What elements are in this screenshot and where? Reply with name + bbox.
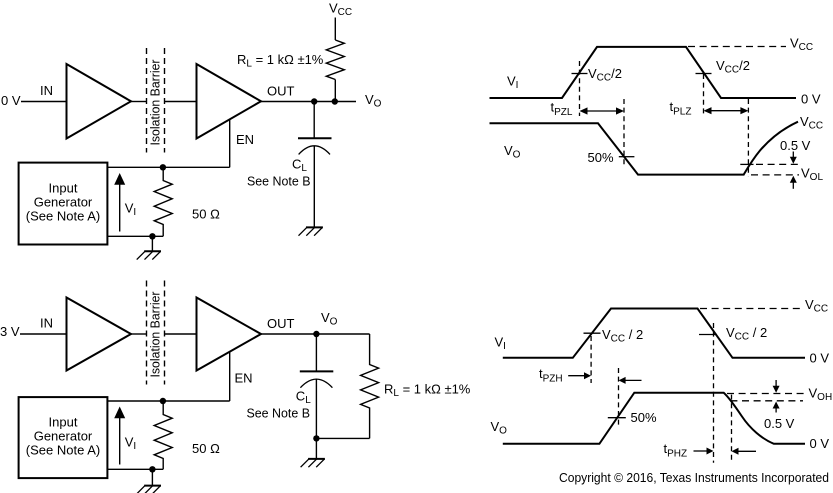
svg-text:Input: Input bbox=[49, 181, 78, 196]
resistor RL bbox=[326, 40, 344, 80]
wire CL to ground node bbox=[315, 379, 317, 438]
wire EN pin bbox=[229, 119, 231, 167]
resistor RL bottom bbox=[361, 334, 379, 438]
svg-text:Generator: Generator bbox=[34, 195, 93, 210]
tPHZ right arrow bbox=[732, 448, 757, 455]
junction dot RL node bbox=[332, 98, 338, 104]
ground generator bbox=[137, 486, 161, 493]
junction dot VI node bbox=[160, 164, 166, 170]
wire output node bbox=[261, 101, 356, 103]
wire to ground bbox=[315, 438, 317, 459]
waveform VO trace bbox=[503, 393, 805, 444]
svg-text:50%: 50% bbox=[631, 410, 657, 425]
svg-text:0 V: 0 V bbox=[801, 92, 821, 107]
wire generator to EN bbox=[107, 400, 229, 402]
tick rise midpoint bbox=[584, 332, 601, 334]
svg-text:See Note B: See Note B bbox=[247, 406, 311, 421]
junction dot ground node bbox=[149, 233, 155, 239]
wire RL to CL node bbox=[316, 437, 369, 439]
dashed vertical VO 50% bbox=[623, 99, 625, 165]
svg-text:Input: Input bbox=[49, 415, 78, 430]
dashed VOH level line bbox=[727, 393, 806, 395]
svg-text:Copyright © 2016, Texas Instru: Copyright © 2016, Texas Instruments Inco… bbox=[559, 470, 829, 485]
wire input to buffer 1 bbox=[20, 333, 67, 335]
wire to ground bbox=[151, 236, 153, 251]
tPLZ arrow bbox=[704, 107, 749, 114]
tPZH arrow bbox=[568, 372, 591, 379]
tick fall midpoint bbox=[699, 334, 717, 336]
junction dot output node bbox=[313, 331, 319, 337]
capacitor CL curved plate bbox=[300, 379, 332, 388]
buffer U4 bbox=[197, 298, 262, 371]
isolation barrier dashed line left bbox=[146, 48, 148, 153]
0.5V up arrow bbox=[773, 402, 780, 413]
junction dot ground node bbox=[313, 435, 319, 441]
svg-text:IN: IN bbox=[40, 83, 53, 98]
waveform VI trace bbox=[503, 309, 805, 358]
wire VCC to RL bbox=[334, 18, 336, 41]
wire barrier to buffer 2 bbox=[165, 101, 197, 103]
dashed vertical rise midpoint bbox=[590, 336, 592, 383]
wire generator bottom bbox=[107, 468, 163, 470]
resistor 50 ohm bbox=[154, 401, 172, 469]
wire generator bottom bbox=[107, 235, 163, 237]
capacitor CL top plate bbox=[298, 137, 332, 139]
dashed vertical tPLZ end bbox=[747, 99, 749, 177]
buffer U3 bbox=[67, 298, 132, 371]
capacitor CL top plate bbox=[300, 370, 334, 372]
resistor 50 ohm bbox=[154, 167, 172, 236]
0.5V down arrow bbox=[790, 152, 797, 164]
waveform VI trace bbox=[490, 47, 797, 98]
VOL up arrow bbox=[790, 176, 797, 189]
svg-text:0 V: 0 V bbox=[810, 351, 830, 366]
svg-text:0 V: 0 V bbox=[810, 436, 830, 451]
wire CL to ground bbox=[313, 146, 315, 227]
isolation barrier dashed line left bbox=[146, 281, 148, 385]
svg-text:0 V: 0 V bbox=[1, 93, 21, 108]
wire input to buffer 1 bbox=[21, 101, 67, 103]
VI arrow bbox=[114, 407, 125, 465]
dashed vertical tPHZ end bbox=[731, 395, 733, 463]
dashed vertical VO 50% bbox=[618, 368, 620, 426]
tick 50% bbox=[619, 156, 635, 158]
svg-text:OUT: OUT bbox=[267, 316, 295, 331]
tick fall midpoint bbox=[696, 73, 712, 75]
svg-text:See Note B: See Note B bbox=[247, 174, 311, 189]
wire RL to node bbox=[334, 80, 336, 102]
tPZH right arrow bbox=[619, 377, 642, 384]
dashed VOL lower line bbox=[751, 174, 799, 176]
wire node to CL bbox=[313, 102, 315, 139]
tPZL arrow bbox=[580, 107, 625, 114]
dashed 0.5V lower line bbox=[730, 400, 803, 402]
dashed VCC level line bbox=[700, 308, 801, 310]
svg-text:(See Note A): (See Note A) bbox=[26, 443, 100, 458]
svg-text:Generator: Generator bbox=[34, 429, 93, 444]
isolation barrier dashed line right bbox=[164, 48, 166, 153]
wire node to CL bbox=[315, 334, 317, 371]
VI arrow bbox=[114, 173, 125, 232]
tick 50% bbox=[608, 417, 626, 419]
wire generator to EN bbox=[107, 166, 229, 168]
svg-text:50 Ω: 50 Ω bbox=[192, 441, 220, 456]
tick rise midpoint bbox=[572, 73, 588, 75]
svg-text:(See Note A): (See Note A) bbox=[26, 209, 100, 224]
tick VOL crossing bbox=[740, 163, 753, 165]
svg-text:EN: EN bbox=[236, 132, 254, 147]
svg-text:Isolation Barrier: Isolation Barrier bbox=[148, 291, 163, 378]
dashed vertical fall midpoint bbox=[713, 323, 715, 463]
buffer U2 bbox=[197, 64, 262, 139]
waveform VO trace bbox=[490, 122, 799, 175]
ground CL bbox=[299, 227, 323, 235]
wire to ground bbox=[151, 469, 153, 485]
tPHZ arrow bbox=[694, 448, 714, 455]
svg-text:0.5 V: 0.5 V bbox=[764, 416, 795, 431]
svg-text:IN: IN bbox=[40, 316, 53, 331]
wire buffer to barrier bbox=[131, 333, 147, 335]
dashed vertical fall midpoint bbox=[703, 74, 705, 116]
0.5V down arrow bbox=[773, 380, 780, 393]
svg-text:50 Ω: 50 Ω bbox=[192, 207, 220, 222]
input generator box bbox=[19, 163, 108, 245]
buffer U1 bbox=[67, 64, 132, 139]
ground generator bbox=[137, 251, 161, 259]
svg-text:EN: EN bbox=[235, 371, 253, 386]
svg-text:OUT: OUT bbox=[267, 84, 295, 99]
dashed VOL upper line bbox=[756, 163, 798, 165]
svg-text:3 V: 3 V bbox=[0, 324, 20, 339]
capacitor CL curved plate bbox=[299, 146, 330, 155]
isolation barrier dashed line right bbox=[164, 281, 166, 385]
svg-text:0.5 V: 0.5 V bbox=[780, 138, 811, 153]
junction dot ground node bbox=[149, 466, 155, 472]
ground CL bbox=[301, 459, 325, 467]
wire barrier to buffer 2 bbox=[165, 333, 197, 335]
dashed vertical rise midpoint bbox=[579, 61, 581, 116]
junction dot output node bbox=[311, 98, 317, 104]
wire output node bbox=[261, 333, 370, 335]
wire buffer1 to barrier bbox=[131, 101, 147, 103]
svg-text:Isolation Barrier: Isolation Barrier bbox=[148, 59, 163, 146]
svg-text:50%: 50% bbox=[588, 150, 614, 165]
dashed VCC level line bbox=[688, 46, 786, 48]
junction dot VI node bbox=[160, 398, 166, 404]
wire EN pin bbox=[229, 352, 231, 401]
input generator box bbox=[19, 397, 108, 478]
